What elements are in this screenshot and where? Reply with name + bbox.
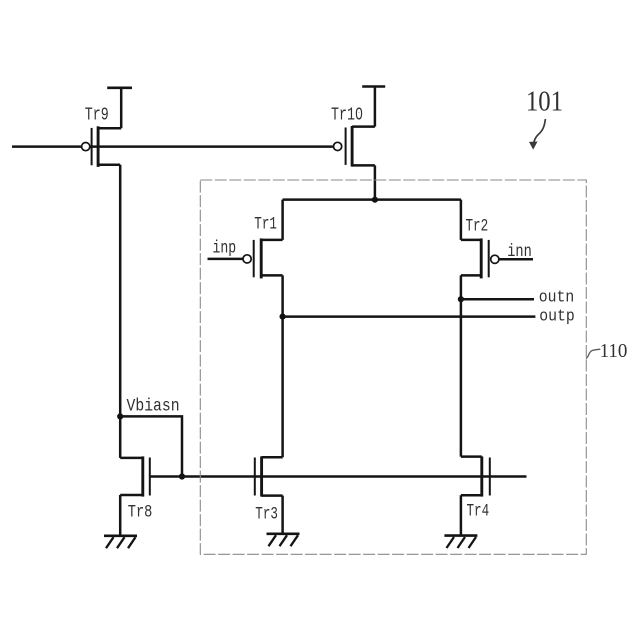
wire: Tr1 drain down to Tr3 drain: [281, 275, 284, 457]
wire: Tr3 source down to ground: [281, 496, 284, 534]
svg-text:inn: inn: [507, 241, 532, 261]
wire: main gate line from left edge to Tr10 gate: [12, 145, 333, 148]
transistor Tr10 (PMOS, gate on left): [346, 126, 375, 167]
transistor Tr4 (NMOS, gate on right): [461, 456, 490, 496]
svg-text:Tr4: Tr4: [467, 501, 490, 522]
wire: Tr8 source down to ground: [119, 495, 122, 536]
wire: Tr10 drain down to tail rail: [374, 165, 377, 199]
svg-text:outn: outn: [539, 288, 574, 307]
wire: Tr2 source up to tail rail: [460, 200, 463, 240]
wire: Tr10 source up to supply: [374, 87, 377, 127]
wire: bias gate line from Tr8 gate to past Tr4: [150, 475, 527, 478]
gate bubble of Tr10: [334, 142, 342, 150]
wire: Tr1 source up to tail rail: [281, 200, 284, 240]
node outn junction dot: [458, 296, 464, 302]
leader squiggle for 110: [586, 349, 600, 358]
node outp junction dot: [280, 314, 286, 320]
svg-text:Tr8: Tr8: [128, 502, 153, 522]
ground below Tr3: [267, 534, 300, 546]
svg-text:Tr2: Tr2: [466, 216, 489, 237]
transistor Tr1 (PMOS, gate on left): [254, 238, 283, 278]
leader arrow for 101: [530, 119, 546, 149]
wire: Tr9 source up to supply: [120, 88, 123, 128]
wire: Tr2 drain down to Tr4 drain: [460, 275, 463, 456]
gate bubble of Tr9: [82, 143, 90, 151]
svg-text:Tr3: Tr3: [255, 504, 278, 525]
wire: Tr9 drain down to Vbiasn node and Tr8 drain: [119, 165, 122, 458]
wire: outn output line: [461, 298, 534, 301]
transistor Tr9 (PMOS): [92, 126, 122, 167]
ground below Tr8: [104, 536, 137, 548]
svg-text:Vbiasn: Vbiasn: [127, 395, 180, 416]
svg-text:101: 101: [526, 85, 563, 117]
svg-text:110: 110: [600, 341, 628, 363]
power supply bar above Tr10: [362, 85, 385, 88]
gate bubble of Tr1: [243, 255, 251, 263]
wire: inn input lead: [499, 258, 533, 261]
ground below Tr4: [444, 536, 477, 548]
transistor Tr8 (NMOS, gate on right): [120, 456, 150, 496]
svg-text:inp: inp: [213, 238, 237, 258]
svg-text:Tr9: Tr9: [85, 105, 109, 126]
node Vbiasn junction dot: [117, 413, 123, 419]
transistor Tr2 (PMOS, gate on right): [461, 238, 489, 278]
svg-text:outp: outp: [539, 307, 574, 326]
node tail junction dot: [372, 197, 378, 203]
gate bubble of Tr2: [491, 255, 499, 263]
wire: Tr4 source down to ground: [460, 495, 463, 535]
wire: tail rail joining Tr1 and Tr2 sources: [283, 198, 461, 201]
svg-text:Tr1: Tr1: [254, 214, 277, 235]
wire: inp input lead: [208, 258, 243, 261]
power supply bar above Tr9: [107, 87, 132, 90]
transistor Tr3 (NMOS, gate on left): [255, 456, 283, 496]
wire: Vbiasn node right then down to bias gate line: [120, 416, 182, 476]
wire: outp output line: [283, 315, 536, 318]
dashed box 110 boundary: [200, 180, 586, 554]
label Tr10: [331, 105, 363, 126]
node junction dot on bias gate line: [179, 473, 185, 479]
